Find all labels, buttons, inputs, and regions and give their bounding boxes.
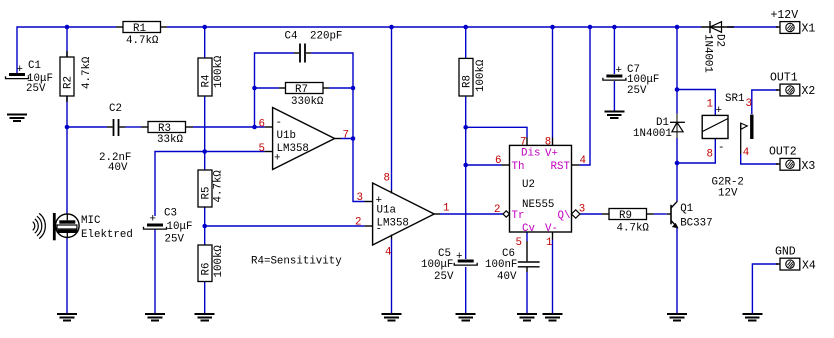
svg-text:BC337: BC337 [680,218,712,230]
svg-text:Elektred: Elektred [81,229,133,241]
svg-text:R8: R8 [462,75,474,88]
svg-text:D2: D2 [714,34,726,47]
svg-text:R4=Sensitivity: R4=Sensitivity [251,256,342,268]
svg-text:25V: 25V [434,271,454,283]
svg-text:LM358: LM358 [377,218,409,230]
svg-text:R7: R7 [295,84,308,96]
svg-text:+: + [17,64,23,76]
svg-text:NE555: NE555 [522,199,554,211]
svg-text:Q\: Q\ [558,210,571,222]
svg-text:C3: C3 [164,208,177,220]
svg-text:33kΩ: 33kΩ [157,134,183,146]
svg-text:R5: R5 [201,187,213,200]
svg-text:8: 8 [545,136,551,148]
svg-text:R9: R9 [619,210,632,222]
svg-text:-: - [718,142,724,154]
svg-text:7: 7 [520,137,526,149]
svg-text:4.7kΩ: 4.7kΩ [617,223,650,235]
svg-text:U1a: U1a [377,205,397,217]
svg-text:LM358: LM358 [277,143,309,155]
svg-text:100kΩ: 100kΩ [475,59,487,92]
svg-text:4.7kΩ: 4.7kΩ [81,56,93,89]
svg-text:V+: V+ [545,148,558,160]
svg-text:U2: U2 [522,179,535,191]
svg-text:X4: X4 [802,259,816,272]
svg-text:GND: GND [775,246,796,259]
svg-text:X3: X3 [802,160,816,173]
svg-text:C4: C4 [285,31,298,43]
svg-text:R1: R1 [133,23,146,35]
svg-text:-: - [276,117,282,129]
svg-text:5: 5 [516,237,522,249]
svg-text:+: + [150,214,156,226]
svg-text:1: 1 [546,237,552,249]
svg-text:3: 3 [579,204,585,216]
svg-text:Q1: Q1 [680,203,693,215]
svg-text:X1: X1 [802,23,816,36]
svg-text:Tr: Tr [512,210,525,222]
svg-text:12V: 12V [718,188,738,200]
svg-text:V-: V- [545,223,558,235]
svg-text:U1b: U1b [277,130,296,142]
svg-text:MIC: MIC [81,215,101,227]
svg-text:4: 4 [743,147,749,159]
svg-text:C1: C1 [28,60,41,72]
svg-text:40V: 40V [108,162,128,174]
svg-text:4.7kΩ: 4.7kΩ [213,170,225,203]
svg-text:2: 2 [494,204,500,216]
svg-text:8: 8 [707,149,713,161]
svg-text:+12V: +12V [771,9,799,22]
svg-text:R4: R4 [201,75,213,88]
svg-text:100nF: 100nF [485,259,517,271]
svg-text:C2: C2 [109,103,122,115]
svg-text:5: 5 [259,143,265,155]
svg-text:100kΩ: 100kΩ [213,245,225,278]
svg-text:OUT1: OUT1 [770,72,798,85]
svg-text:+: + [716,105,722,117]
svg-text:Th: Th [512,161,525,173]
svg-text:25V: 25V [26,83,46,95]
svg-text:220pF: 220pF [310,31,342,43]
svg-text:4: 4 [385,247,391,259]
svg-text:25V: 25V [627,85,647,97]
svg-text:RST: RST [551,161,571,173]
svg-text:10μF: 10μF [167,221,193,233]
svg-text:1N4001: 1N4001 [702,34,714,73]
svg-text:6: 6 [495,155,501,167]
svg-text:1N4001: 1N4001 [633,128,672,140]
svg-text:1: 1 [707,99,713,111]
svg-text:X2: X2 [802,85,816,98]
svg-text:+: + [616,65,622,77]
svg-text:1: 1 [443,203,449,215]
svg-text:6: 6 [259,118,265,130]
svg-text:100kΩ: 100kΩ [213,55,225,88]
svg-text:330kΩ: 330kΩ [291,96,324,108]
svg-text:8: 8 [384,173,390,185]
svg-text:7: 7 [343,130,349,142]
svg-text:25V: 25V [165,234,185,246]
svg-text:3: 3 [746,98,752,110]
svg-text:40V: 40V [497,271,517,283]
svg-text:Dis: Dis [521,148,540,160]
svg-text:4.7kΩ: 4.7kΩ [126,35,159,47]
svg-text:SR1: SR1 [725,93,744,105]
svg-text:Cv: Cv [522,223,535,235]
svg-text:2: 2 [355,217,361,229]
svg-text:4: 4 [580,155,586,167]
svg-text:OUT2: OUT2 [769,146,797,159]
svg-text:R2: R2 [63,76,75,89]
svg-text:R6: R6 [201,263,213,276]
svg-text:+: + [456,251,462,263]
svg-text:3: 3 [357,192,363,204]
svg-text:100μF: 100μF [421,259,453,271]
